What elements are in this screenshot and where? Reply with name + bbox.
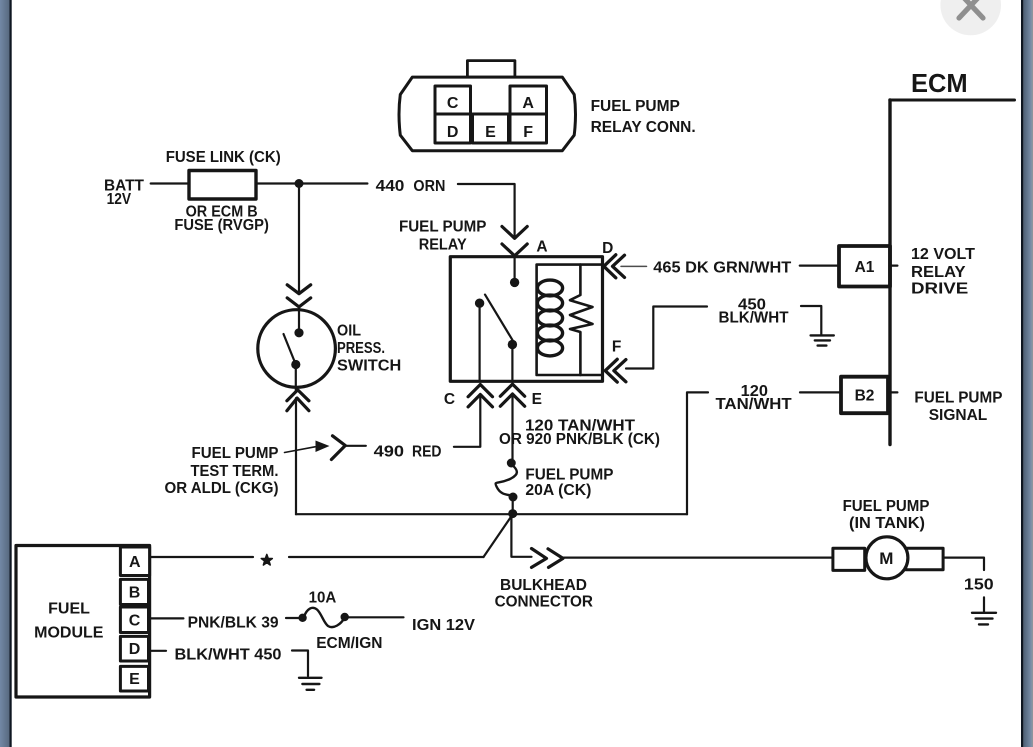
ground 150 stem xyxy=(983,597,985,612)
wire oil switch down to bottom bus xyxy=(295,398,297,514)
wire terminal to 490 RED xyxy=(345,445,366,447)
wire into oil switch xyxy=(298,307,300,333)
fuse 10A left terminal xyxy=(298,614,306,622)
svg-text:BULKHEAD: BULKHEAD xyxy=(500,577,587,594)
svg-text:IGN 12V: IGN 12V xyxy=(412,617,476,634)
svg-text:MODULE: MODULE xyxy=(34,625,104,642)
ECM terminal B2 box xyxy=(841,377,888,414)
svg-text:10A: 10A xyxy=(309,590,337,607)
svg-text:PNK/BLK 39: PNK/BLK 39 xyxy=(188,615,279,632)
module pin A box xyxy=(120,547,149,576)
svg-text:F: F xyxy=(612,339,621,356)
fuel pump right terminal block xyxy=(906,548,943,570)
svg-text:ECM/IGN: ECM/IGN xyxy=(316,635,382,652)
wire fuse 10A to IGN 12V xyxy=(349,616,404,618)
ECM left boundary line xyxy=(888,100,891,445)
wire module A to asterisk xyxy=(150,556,253,558)
svg-text:SIGNAL: SIGNAL xyxy=(929,407,988,424)
connector chevrons relay pin F xyxy=(605,359,626,382)
wire BATT to fuse link xyxy=(151,182,189,184)
oil pressure switch body xyxy=(258,310,336,388)
oil switch lower contact xyxy=(291,360,300,369)
svg-text:D: D xyxy=(602,240,613,257)
svg-text:SWITCH: SWITCH xyxy=(337,357,401,374)
label FUEL PUMP RELAY CONN. xyxy=(591,98,696,136)
svg-text:A: A xyxy=(522,95,534,112)
wire fuse to junction xyxy=(512,499,514,510)
svg-text:20A (CK): 20A (CK) xyxy=(525,482,591,499)
junction node on bus xyxy=(508,509,517,518)
wire module D to BLK/WHT 450 xyxy=(149,650,167,652)
wire 440 ORN to relay pin A xyxy=(458,184,515,237)
svg-text:ECM: ECM xyxy=(911,70,968,98)
svg-text:E: E xyxy=(485,124,496,141)
connector chevrons relay pin E xyxy=(500,384,524,406)
svg-text:C: C xyxy=(129,613,141,630)
bottom bus wire xyxy=(296,513,687,515)
svg-text:ORN: ORN xyxy=(413,178,445,195)
wire C pin down to 490 RED xyxy=(454,396,480,447)
svg-text:CONNECTOR: CONNECTOR xyxy=(495,594,593,611)
fuel module box xyxy=(16,546,150,698)
label OR ECM B FUSE (RVGP) xyxy=(174,204,269,235)
label 490 RED xyxy=(374,444,442,461)
ECM terminal A1 box xyxy=(839,246,890,287)
svg-text:E: E xyxy=(129,671,140,688)
junction node at fuse output xyxy=(295,179,304,188)
oil switch upper contact xyxy=(294,328,303,337)
fuel pump relay connector housing xyxy=(399,77,576,151)
B2 tick xyxy=(888,391,897,393)
svg-text:C: C xyxy=(447,95,459,112)
relay coil box xyxy=(537,265,603,375)
label OIL PRESS. SWITCH xyxy=(337,323,401,375)
svg-text:465 DK GRN/WHT: 465 DK GRN/WHT xyxy=(653,260,792,277)
svg-text:FUEL PUMP: FUEL PUMP xyxy=(591,98,680,115)
svg-text:M: M xyxy=(879,549,893,568)
wire module C to PNK/BLK 39 xyxy=(149,617,183,619)
label 12 VOLT RELAY DRIVE xyxy=(911,246,976,298)
relay resistor xyxy=(570,265,593,375)
svg-text:OR 920 PNK/BLK (CK): OR 920 PNK/BLK (CK) xyxy=(499,431,660,448)
svg-text:FUEL: FUEL xyxy=(48,601,90,618)
bus riser to B2 wire xyxy=(687,392,708,514)
svg-text:B: B xyxy=(129,585,141,602)
left window border strip xyxy=(0,0,12,747)
close button xyxy=(940,0,1001,35)
test terminal arrowhead xyxy=(316,441,330,453)
wire 120 TAN/WHT to B2 xyxy=(800,391,841,393)
wire relay C pin inside box xyxy=(479,303,481,381)
test terminal chevron xyxy=(331,436,345,460)
fuse 10A right terminal xyxy=(341,613,349,621)
svg-text:F: F xyxy=(523,124,533,141)
fuel pump relay connector tab xyxy=(467,61,515,78)
svg-text:490: 490 xyxy=(374,444,404,461)
module pin B box xyxy=(120,579,148,604)
svg-text:FUEL PUMP: FUEL PUMP xyxy=(192,445,279,462)
svg-text:OIL: OIL xyxy=(337,323,361,340)
svg-text:FUEL PUMP: FUEL PUMP xyxy=(843,498,930,515)
fuse FUEL PUMP 20A element xyxy=(496,465,517,496)
label 120 TAN/WHT OR 920 PNK/BLK (CK) xyxy=(499,418,660,449)
svg-text:TAN/WHT: TAN/WHT xyxy=(716,396,793,413)
wire asterisk to junction diagonal xyxy=(289,556,484,558)
connector chevrons above oil press switch xyxy=(287,285,311,307)
relay switch arm xyxy=(485,295,513,341)
connector chevrons relay pin C xyxy=(468,385,492,407)
wire junction down to bulkhead xyxy=(511,514,531,557)
wire junction down to oil press switch xyxy=(298,184,300,294)
svg-text:D: D xyxy=(447,124,459,141)
svg-text:FUSE (RVGP): FUSE (RVGP) xyxy=(174,217,269,234)
right window border strip xyxy=(1021,0,1033,747)
relay switch fixed contact xyxy=(475,299,484,308)
label 120 TAN/WHT (near B2) xyxy=(716,383,793,413)
label BATT 12V xyxy=(104,178,145,209)
wire fuse link to 440 ORN xyxy=(256,182,367,184)
wire relay E pin inside box xyxy=(511,345,513,382)
wire 465 label to A1 xyxy=(800,265,839,267)
connector pin E xyxy=(473,114,509,143)
bulkhead connector chevrons xyxy=(532,549,564,568)
wire E pin down to fuse xyxy=(511,395,513,459)
connector chevrons at relay pin A xyxy=(502,227,527,256)
ECM top boundary line xyxy=(890,99,1015,102)
svg-text:PRESS.: PRESS. xyxy=(337,340,385,357)
svg-text:FUSE LINK (CK): FUSE LINK (CK) xyxy=(166,149,281,166)
ground for 450 BLK/WHT xyxy=(811,335,834,345)
connector pin A xyxy=(510,86,547,114)
connector pin D xyxy=(435,114,471,143)
svg-text:DRIVE: DRIVE xyxy=(911,281,968,298)
connector pin F xyxy=(510,114,547,143)
wire PNK/BLK to fuse 10A xyxy=(286,617,299,619)
label FUEL PUMP (IN TANK) xyxy=(843,498,930,532)
svg-text:BLK/WHT 450: BLK/WHT 450 xyxy=(175,647,282,664)
wire bulkhead to fuel pump xyxy=(563,556,833,558)
svg-text:FUEL PUMP: FUEL PUMP xyxy=(914,389,1002,406)
svg-text:D: D xyxy=(129,641,141,658)
fuse link box xyxy=(189,171,256,200)
module pin D box xyxy=(120,636,148,661)
label FUEL PUMP SIGNAL xyxy=(914,389,1002,424)
wire junction diagonal to fuel module A wire xyxy=(484,518,511,558)
wire 450 label to ground xyxy=(801,306,821,335)
svg-text:440: 440 xyxy=(376,178,405,195)
connector chevrons relay pin D xyxy=(604,255,625,278)
module pin E box xyxy=(120,666,148,691)
svg-text:(IN TANK): (IN TANK) xyxy=(849,515,925,532)
wire lower contact to circle bottom xyxy=(295,365,297,391)
svg-text:RELAY: RELAY xyxy=(911,264,966,281)
fuse FUEL PUMP 20A lower terminal xyxy=(509,493,518,502)
fuel pump motor xyxy=(866,537,908,579)
relay coil winding xyxy=(537,280,562,356)
svg-text:TEST TERM.: TEST TERM. xyxy=(191,463,279,480)
label FUEL MODULE xyxy=(34,601,104,642)
svg-text:C: C xyxy=(444,391,455,408)
wire BLK/WHT 450 to ground xyxy=(292,651,308,677)
fuel pump relay box xyxy=(450,257,602,382)
relay switch moving contact xyxy=(508,340,517,349)
svg-text:A: A xyxy=(129,554,141,571)
svg-text:RED: RED xyxy=(412,444,442,461)
ground for BLK/WHT 450 xyxy=(299,678,322,690)
label FUEL PUMP TEST TERM. OR ALDL (CKG) xyxy=(165,445,279,497)
module pin C box xyxy=(120,607,148,633)
fuse 10A element xyxy=(304,608,344,627)
connector chevrons below oil press switch xyxy=(287,390,309,411)
relay pin A lead and contact xyxy=(513,257,515,282)
A1 tick xyxy=(890,265,897,267)
oil switch arm xyxy=(284,334,296,363)
svg-text:A1: A1 xyxy=(855,259,875,276)
svg-text:BLK/WHT: BLK/WHT xyxy=(719,310,790,327)
label 450 BLK/WHT xyxy=(719,297,790,327)
wire fuel pump to 150 ground xyxy=(943,558,984,570)
svg-text:RELAY CONN.: RELAY CONN. xyxy=(591,119,696,136)
svg-text:12V: 12V xyxy=(107,191,132,208)
svg-text:B2: B2 xyxy=(855,387,875,404)
label FUEL PUMP RELAY xyxy=(399,219,487,254)
svg-text:RELAY: RELAY xyxy=(419,236,468,253)
wire F to 450 BLK/WHT xyxy=(626,307,707,369)
connector pin C xyxy=(435,86,471,114)
ground 150 xyxy=(972,613,996,625)
svg-text:OR ALDL (CKG): OR ALDL (CKG) xyxy=(165,480,279,497)
svg-text:150: 150 xyxy=(964,577,994,594)
svg-text:FUEL PUMP: FUEL PUMP xyxy=(399,219,487,236)
svg-text:12 VOLT: 12 VOLT xyxy=(911,246,976,263)
label BULKHEAD CONNECTOR xyxy=(495,577,593,611)
svg-text:E: E xyxy=(532,391,542,408)
asterisk node xyxy=(261,555,272,566)
fuse FUEL PUMP 20A upper terminal xyxy=(507,459,516,468)
label FUEL PUMP 20A (CK) xyxy=(525,467,613,499)
wire D chevron to 465 label xyxy=(621,265,647,267)
fuel pump left terminal block xyxy=(833,548,865,570)
label 440 ORN xyxy=(376,178,446,195)
svg-text:A: A xyxy=(536,239,547,256)
leader line from test term label xyxy=(285,447,316,453)
